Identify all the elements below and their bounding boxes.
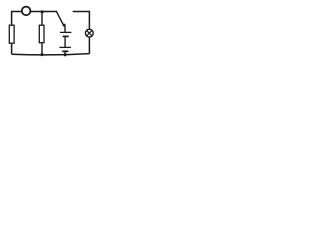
battery B1 cell 2 long plate	[59, 46, 71, 48]
resistor R2	[39, 25, 44, 43]
node C (junction dot at bottom of R2 branch)	[40, 53, 43, 56]
battery B1 cell 1 long plate	[60, 31, 72, 33]
wire: R1 down to bottom-left corner	[11, 43, 13, 54]
lamp L1 (circle)	[85, 29, 93, 37]
bottom wire	[12, 54, 90, 55]
wire: switch fixed contact to top-right corner, down right rail to lamp	[73, 12, 90, 29]
wire: between battery cells	[64, 37, 66, 48]
switch S1 (open blade)	[56, 11, 63, 25]
wire: R2 to bottom wire	[41, 43, 43, 55]
battery B1 cell 1 short plate	[63, 35, 69, 37]
lamp L1 X filament	[87, 30, 92, 35]
wire: lamp down to bottom-right corner	[88, 37, 90, 54]
node A (junction dot at top of R2 branch)	[41, 10, 44, 13]
wire: meter to switch pivot	[31, 11, 56, 13]
wire: left rail top (bottom-left of meter up to top-left corner then right)	[12, 12, 22, 26]
switch pivot dot	[63, 24, 66, 27]
wire: node A down to R2	[41, 12, 43, 25]
resistor R1	[9, 25, 14, 43]
wire: pivot post down to battery	[64, 25, 66, 32]
node D (junction dot at battery bottom)	[64, 53, 67, 56]
wire: battery to bottom wire	[64, 51, 66, 55]
meter M1 (circle symbol in top wire)	[22, 7, 31, 16]
battery B1 cell 2 short plate	[62, 50, 68, 52]
